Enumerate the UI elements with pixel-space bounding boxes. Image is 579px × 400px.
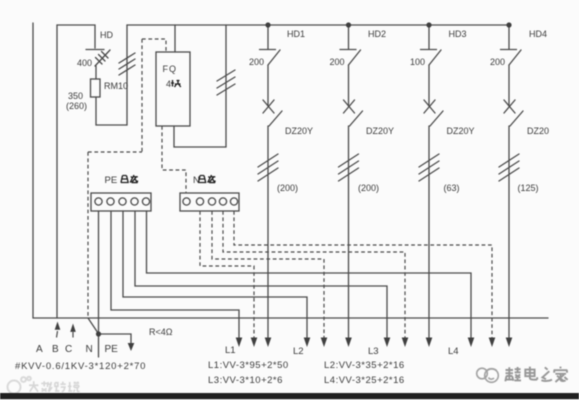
svg-text:L2: L2 bbox=[293, 346, 304, 357]
svg-text:HD2: HD2 bbox=[368, 29, 386, 39]
svg-text:L1: L1 bbox=[225, 345, 236, 356]
svg-text:FQ: FQ bbox=[163, 64, 178, 74]
svg-text:DZ20Y: DZ20Y bbox=[285, 126, 313, 136]
svg-text:(200): (200) bbox=[358, 183, 379, 193]
svg-text:(200): (200) bbox=[277, 183, 298, 193]
svg-text:B: B bbox=[52, 344, 59, 355]
svg-text:DZ20: DZ20 bbox=[527, 126, 549, 136]
svg-text:400: 400 bbox=[77, 58, 92, 68]
svg-text:350: 350 bbox=[68, 91, 83, 101]
svg-text:(63): (63) bbox=[444, 183, 460, 193]
svg-text:HD1: HD1 bbox=[287, 29, 305, 39]
svg-text:L3: L3 bbox=[368, 346, 379, 357]
svg-text:L2:VV-3*35+2*16: L2:VV-3*35+2*16 bbox=[324, 360, 405, 371]
svg-text:200: 200 bbox=[330, 57, 345, 67]
svg-text:HD3: HD3 bbox=[449, 29, 467, 39]
svg-text:L1:VV-3*95+2*50: L1:VV-3*95+2*50 bbox=[208, 360, 289, 371]
svg-text:200: 200 bbox=[249, 57, 264, 67]
svg-text:HD: HD bbox=[100, 30, 113, 40]
svg-text:L4: L4 bbox=[448, 346, 459, 357]
svg-text:HD4: HD4 bbox=[529, 29, 547, 39]
svg-text:PE: PE bbox=[105, 175, 118, 186]
svg-text:4: 4 bbox=[166, 79, 171, 89]
svg-text:PE: PE bbox=[105, 344, 119, 355]
svg-text:N: N bbox=[86, 344, 93, 355]
svg-text:100: 100 bbox=[410, 57, 425, 67]
svg-text:(260): (260) bbox=[66, 101, 87, 111]
svg-text:RM10: RM10 bbox=[104, 81, 128, 91]
svg-text:#KVV-0.6/1KV-3*120+2*70: #KVV-0.6/1KV-3*120+2*70 bbox=[15, 361, 146, 372]
svg-text:A: A bbox=[36, 344, 43, 355]
svg-text:L4:VV-3*25+2*16: L4:VV-3*25+2*16 bbox=[324, 375, 405, 386]
svg-text:200: 200 bbox=[490, 57, 505, 67]
svg-text:(125): (125) bbox=[518, 183, 539, 193]
svg-text:DZ20Y: DZ20Y bbox=[447, 126, 475, 136]
svg-text:R<4Ω: R<4Ω bbox=[149, 327, 173, 337]
svg-text:C: C bbox=[65, 344, 72, 355]
svg-text:DZ20Y: DZ20Y bbox=[366, 126, 394, 136]
svg-text:L3:VV-3*10+2*6: L3:VV-3*10+2*6 bbox=[208, 375, 283, 386]
